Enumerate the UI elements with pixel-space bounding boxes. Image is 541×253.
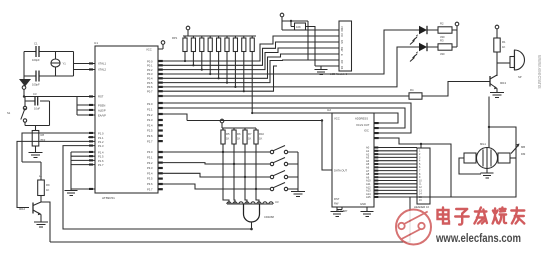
pins P3.0-P3.7 labels — [147, 150, 153, 191]
wires U2 RST RW pins to ground — [331, 207, 344, 217]
pins P0.0-P0.7 labels — [147, 59, 153, 93]
svg-text:VO: VO — [340, 33, 344, 37]
wires P1.4-P1.7 to left bus and MCU ground — [71, 152, 88, 189]
svg-text:P1.7: P1.7 — [98, 163, 104, 167]
wire VDD drop to pot and LCD pin 1 — [282, 21, 339, 30]
svg-text:R6: R6 — [237, 132, 241, 136]
power VCC for reset circuit — [22, 86, 26, 97]
svg-text:P1.5: P1.5 — [98, 155, 104, 159]
svg-text:ADDRESS: ADDRESS — [355, 117, 368, 121]
svg-text:P0.3: P0.3 — [147, 72, 153, 76]
svg-text:1K: 1K — [226, 137, 229, 141]
svg-text:RST: RST — [334, 197, 340, 201]
wires RP1 drops onto P0 rows — [184, 52, 253, 115]
gate U3 CD4068 body — [244, 204, 275, 229]
svg-text:P3.3: P3.3 — [147, 166, 153, 170]
wire P3.4 key row 3 — [162, 173, 270, 177]
svg-text:RW: RW — [340, 47, 344, 52]
svg-text:LCD Module 1: LCD Module 1 — [330, 72, 348, 76]
U2 A0-A15 pin labels — [366, 146, 371, 200]
ground at U2 GND pin — [361, 207, 374, 217]
capacitor C1 — [24, 42, 74, 63]
svg-text:RS: RS — [340, 40, 344, 44]
diode LED1 — [384, 26, 427, 45]
svg-text:R2: R2 — [440, 22, 444, 26]
svg-text:P2.6: P2.6 — [147, 134, 153, 138]
svg-text:www.elecfans.com: www.elecfans.com — [435, 231, 521, 245]
resistor R1 — [494, 38, 506, 63]
resistor network RP1 top rail — [172, 36, 256, 40]
switch S1 reset key — [7, 97, 27, 126]
wire gate output long bus — [63, 228, 252, 230]
adjustment arrow at motor — [511, 144, 526, 157]
wire switch common rail — [297, 152, 299, 192]
wire P0.3 row to LED1 riser — [162, 30, 419, 74]
wire motor top feed — [488, 97, 490, 151]
svg-text:XTAL2: XTAL2 — [98, 68, 107, 72]
wire P0.0 row to LCD staircase — [162, 36, 339, 61]
svg-text:P3.2: P3.2 — [147, 161, 153, 165]
wire P0.5 row to LCD staircase — [162, 60, 339, 83]
ground below Q1 — [490, 89, 504, 98]
wire motor right brush to rail — [510, 157, 516, 159]
gate U3 input hooks — [227, 200, 279, 204]
resistor R5 — [221, 128, 230, 144]
wire P2.0 loop A to U2 ADDR pin — [162, 103, 411, 133]
speaker SP1 — [497, 50, 525, 79]
svg-text:10K: 10K — [296, 25, 301, 29]
svg-text:VDD: VDD — [340, 26, 344, 32]
svg-text:R3: R3 — [440, 39, 444, 43]
svg-text:P3.4: P3.4 — [147, 171, 153, 175]
svg-text:P1.6: P1.6 — [98, 159, 104, 163]
svg-text:P2.5: P2.5 — [147, 129, 153, 133]
ground below Q2 — [34, 222, 48, 227]
wire motor loop top — [489, 126, 516, 128]
power VCC above R1 — [495, 25, 499, 38]
wire RST net to MCU pin 9 — [24, 96, 88, 98]
svg-text:C1: C1 — [34, 42, 38, 46]
wire P2.2 jog to DATA OUT feed — [162, 114, 332, 170]
svg-text:RP1: RP1 — [172, 36, 178, 40]
svg-text:P2.1: P2.1 — [147, 108, 153, 112]
capacitor C2 — [24, 71, 74, 87]
svg-text:P2.4: P2.4 — [147, 123, 153, 127]
resistor R4 buzzer base — [409, 88, 422, 99]
power VCC for LEDs — [455, 22, 459, 30]
svg-text:XTAL1: XTAL1 — [98, 62, 107, 66]
switch K4 — [270, 183, 298, 191]
node gate output junction — [250, 228, 253, 231]
connector J1 pin header — [414, 148, 430, 209]
svg-text:P3.6: P3.6 — [147, 182, 153, 186]
wire P0.1 row to LCD staircase — [162, 42, 339, 65]
wire P2.1 loop B to U2 pin — [162, 108, 405, 128]
wire U2 pin loop to motor rail — [374, 127, 516, 197]
svg-text:9012: 9012 — [19, 207, 25, 211]
svg-text:P1.1: P1.1 — [98, 136, 104, 140]
right pin stubs with pin-number blobs — [158, 49, 163, 190]
wires U2 address bus A0-A15 to header — [374, 147, 417, 199]
op-amp U1 main MCU body AT89C51 — [94, 41, 158, 200]
svg-text:R1: R1 — [502, 40, 506, 44]
svg-text:U3: U3 — [275, 200, 279, 204]
resistor R7 — [243, 128, 252, 144]
wire P0.2 row to LCD staircase — [162, 48, 339, 70]
svg-text:1K: 1K — [502, 45, 505, 49]
capacitor C3 — [25, 92, 50, 111]
svg-text:P2.2: P2.2 — [147, 113, 153, 117]
svg-text:VCC: VCC — [146, 48, 152, 52]
resistor R9 bottom-left cluster — [22, 162, 50, 202]
node header top junction — [420, 143, 422, 145]
watermark logo circle — [396, 210, 431, 245]
svg-text:IOC: IOC — [364, 129, 369, 133]
U2 pin labels — [334, 117, 370, 207]
svg-text:L1: L1 — [39, 174, 42, 178]
wire LED common rail — [456, 30, 458, 47]
wire P1.0 to bottom-left cluster top rail — [22, 133, 88, 162]
svg-text:1K: 1K — [248, 137, 251, 141]
pins P1.0-P1.3 labels — [98, 132, 104, 148]
left pin stubs with pin-number blobs — [77, 62, 95, 190]
svg-text:AT89C51: AT89C51 — [102, 196, 115, 200]
svg-text:1K: 1K — [259, 137, 262, 141]
diode LED2 — [397, 43, 427, 62]
svg-text:P3.0: P3.0 — [147, 150, 153, 154]
svg-text:P1.2: P1.2 — [98, 140, 104, 144]
switch K3 — [270, 171, 298, 179]
svg-text:P3.7: P3.7 — [147, 187, 153, 191]
resistor R6 — [232, 128, 241, 144]
transistor Q1 NPN buzzer driver — [490, 63, 506, 89]
svg-text:CD4068: CD4068 — [264, 215, 274, 219]
wire P3.6 key row 4 — [162, 184, 270, 189]
wire Q2 emitter down — [40, 215, 42, 223]
svg-text:P0.5: P0.5 — [147, 81, 153, 85]
wires key resistor columns down to gate inputs — [223, 144, 259, 204]
resistor R10 — [254, 128, 265, 144]
switch K1 — [270, 146, 298, 154]
wire P1.3 down to long bus — [63, 146, 88, 230]
wire loop C to U2 pin — [252, 113, 398, 123]
svg-text:R4: R4 — [410, 88, 414, 92]
pins P2.0-P2.7 labels — [147, 102, 153, 143]
wire Q2 collector to bottom bus — [41, 202, 50, 242]
ground below crystal cluster (filled) — [19, 76, 31, 87]
resistor R8 reset pulldown — [32, 126, 46, 151]
wire motor left brush loop — [459, 158, 481, 174]
wire reset bottom rail — [25, 101, 50, 126]
svg-text:E: E — [340, 54, 344, 56]
svg-text:P1.0: P1.0 — [98, 132, 104, 136]
svg-text:100pF: 100pF — [32, 83, 40, 87]
svg-text:330: 330 — [440, 35, 445, 39]
svg-text:HEADER 16: HEADER 16 — [414, 205, 429, 209]
watermark title 电子发烧友 — [438, 208, 525, 225]
power VCC symbol at MCU pin 40 — [158, 41, 165, 49]
switch K2 — [270, 158, 298, 166]
svg-text:P1.3: P1.3 — [98, 144, 104, 148]
power VCC for LCD contrast — [280, 13, 284, 21]
wire bottom long bus to motor rail — [50, 197, 451, 242]
svg-text:ALE/P: ALE/P — [98, 109, 106, 113]
svg-text:XCLS OUT: XCLS OUT — [356, 123, 370, 127]
svg-text:1K: 1K — [46, 188, 49, 192]
svg-text:R5: R5 — [226, 132, 230, 136]
motor MG1 — [464, 142, 510, 169]
wire P3 row buzzer base net with resistor R4 — [162, 82, 490, 97]
svg-text:P0.7: P0.7 — [147, 89, 153, 93]
svg-text:330: 330 — [440, 52, 445, 56]
wire P0.6 row to LED2 riser — [162, 47, 419, 87]
svg-text:MG1: MG1 — [480, 142, 486, 146]
svg-text:U1: U1 — [94, 41, 98, 45]
crystal Y1 — [51, 52, 66, 77]
svg-text:P2.0: P2.0 — [147, 102, 153, 106]
svg-text:P3.5: P3.5 — [147, 177, 153, 181]
svg-text:D0: D0 — [340, 60, 344, 64]
svg-text:DATA OUT: DATA OUT — [334, 169, 347, 173]
resistor R2 — [427, 22, 457, 40]
U2 right top pin blobs — [374, 122, 378, 139]
chip U2 body — [327, 108, 374, 213]
ground below switches — [291, 192, 305, 197]
svg-text:P1.4: P1.4 — [98, 150, 104, 154]
svg-text:R10: R10 — [259, 132, 264, 136]
ground below motor — [481, 169, 494, 179]
svg-text:RW: RW — [334, 202, 339, 206]
wire P3.2 key row 2 — [162, 163, 270, 164]
svg-text:Y1: Y1 — [63, 62, 67, 66]
svg-text:100pF: 100pF — [32, 58, 40, 62]
power VCC above RP1 — [186, 26, 190, 36]
svg-text:SP: SP — [518, 75, 522, 79]
svg-text:GND: GND — [360, 202, 366, 206]
svg-text:P0.1: P0.1 — [147, 64, 153, 68]
resistor RP1 elements (9 bodies) — [183, 36, 254, 52]
svg-text:PSEN: PSEN — [98, 104, 105, 108]
svg-text:P0.4: P0.4 — [147, 77, 153, 81]
svg-text:P0.6: P0.6 — [147, 85, 153, 89]
resistor R3 — [427, 39, 457, 57]
transistor Q2 PNP driver — [19, 202, 41, 215]
wire P0.4 row to LCD staircase — [162, 54, 339, 78]
wire VCC top rail to LCD — [282, 21, 308, 60]
svg-text:R7: R7 — [248, 132, 252, 136]
node motor loop junction — [488, 126, 490, 128]
svg-text:S1: S1 — [7, 111, 11, 115]
svg-text:1K: 1K — [237, 137, 240, 141]
ground under LCD — [315, 66, 328, 75]
svg-text:9013: 9013 — [500, 81, 506, 85]
svg-text:R8: R8 — [41, 133, 45, 137]
node key column junctions — [222, 151, 257, 190]
node VDD tap junction — [290, 20, 292, 22]
svg-text:P0.0: P0.0 — [147, 59, 153, 63]
svg-text:P0.2: P0.2 — [147, 68, 153, 72]
wire key pull-up rail — [222, 127, 256, 129]
ground at MCU GND pin — [65, 189, 78, 196]
svg-text:P2.3: P2.3 — [147, 118, 153, 122]
svg-text:P2.7: P2.7 — [147, 139, 153, 143]
wire pot to VSS rail — [306, 27, 340, 67]
pins P1.4-P1.7 labels — [98, 150, 104, 167]
power VCC above key resistors — [220, 119, 224, 128]
svg-text:U2: U2 — [327, 108, 331, 112]
wire left rail of crystal cluster — [23, 52, 25, 77]
wire P0.7 row — [162, 66, 277, 91]
svg-text:MB: MB — [521, 145, 525, 149]
ground below R8 — [29, 150, 43, 158]
svg-text:VCC: VCC — [334, 117, 340, 121]
resistor RV1 10K contrast pot — [295, 23, 306, 30]
svg-text:RST: RST — [98, 95, 104, 99]
wire right rail to XTAL pins — [74, 52, 89, 77]
svg-text:A15: A15 — [366, 195, 371, 199]
wire P1.2 to Q2 base — [17, 141, 88, 207]
svg-text:C3: C3 — [33, 92, 37, 96]
svg-text:EA/VP: EA/VP — [98, 114, 106, 118]
node reset top junction — [23, 95, 25, 97]
svg-text:www.elecfans: www.elecfans — [536, 54, 541, 89]
node DATA OUT riser junction — [321, 119, 323, 121]
svg-text:R9: R9 — [46, 183, 50, 187]
wire P3.0 key row 1 — [162, 151, 270, 153]
svg-text:10uF: 10uF — [34, 107, 40, 111]
svg-text:D4: D4 — [340, 66, 344, 70]
connector LCD module — [330, 21, 352, 76]
svg-text:P3.1: P3.1 — [147, 156, 153, 160]
